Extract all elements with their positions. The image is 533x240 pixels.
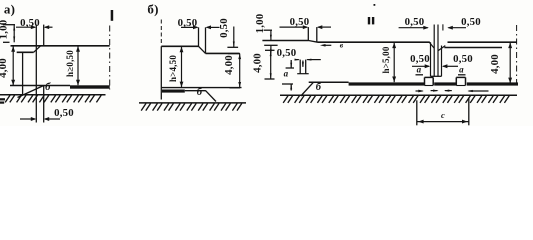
svg-text:0,50: 0,50: [54, 107, 74, 119]
svg-text:а): а): [4, 2, 15, 17]
fig a axis dash-dot line: [109, 26, 111, 90]
svg-text:0,50: 0,50: [277, 47, 297, 59]
fig b tick bottom ext: [230, 87, 241, 89]
fig v trench wall right outer: [441, 46, 443, 77]
fig a axis label I: [111, 10, 114, 21]
svg-text:4,00: 4,00: [223, 55, 235, 75]
fig a h dimension line with arrows: [77, 46, 79, 85]
fig v embankment slope left: [301, 82, 314, 96]
svg-text:с: с: [441, 110, 445, 120]
fig a pavement top line: [11, 45, 110, 47]
fig a 1,00 dimension ticks and line: [3, 24, 15, 26]
fig v trench chamfer right: [438, 46, 445, 51]
fig a extension line left x36: [35, 25, 37, 123]
fig v h>5,00 dimension line with arrows: [393, 43, 395, 83]
fig b bottom line after bar: [185, 90, 206, 92]
fig a extension line right x44 lower: [43, 86, 45, 123]
svg-text:а: а: [459, 64, 464, 74]
fig v extension x308: [307, 27, 309, 40]
svg-text:1,00: 1,00: [0, 20, 9, 40]
fig v 1,00 dimension line: [270, 30, 272, 40]
fig b ground hatching: [141, 103, 146, 110]
fig v box 1 left wall: [424, 77, 426, 85]
fig v pavement right of trench: [448, 41, 517, 43]
fig v arrow left of box1 under bar: [416, 90, 423, 92]
fig v trench bottom: [431, 75, 442, 77]
fig v meeting arrows under bar: [431, 90, 438, 92]
fig v gap dim ticks and arrows with label a: [286, 67, 294, 69]
fig v 4,00 right dimension line: [509, 43, 511, 84]
fig a berm top line: [17, 51, 34, 53]
fig a extension line right x44 upper: [43, 25, 45, 46]
fig v trench wall right inner full ext: [437, 25, 439, 77]
svg-text:4,00: 4,00: [489, 54, 501, 74]
fig b h>4,50 dimension line with arrows: [181, 47, 183, 87]
fig a ground line: [0, 94, 106, 96]
svg-text:0,50: 0,50: [405, 16, 425, 28]
fig v ground hatching: [283, 96, 288, 103]
fig b tick pavement level ext: [228, 53, 240, 55]
fig b extension line x198: [198, 27, 200, 46]
svg-text:а: а: [417, 64, 422, 74]
fig v label II: [368, 17, 370, 24]
fig v tick below left: [264, 44, 277, 46]
fig v top dimension line with arrows: [280, 26, 308, 28]
fig v tick top left: [264, 29, 272, 31]
fig v thick bar segment 1: [349, 82, 425, 85]
fig v box 1 bottom thin line: [425, 85, 434, 87]
fig v box 1 right wall: [432, 77, 434, 85]
fig v box 2 bottom thin line: [456, 85, 465, 87]
fig v axis dash-dot line: [516, 25, 518, 86]
fig v thick bar segment 2: [434, 82, 456, 85]
svg-text:б: б: [197, 87, 203, 98]
fig b ground line: [139, 102, 246, 104]
fig v box 1 top: [425, 76, 434, 78]
fig b step slope: [199, 46, 206, 53]
fig b left dash-dot edge above: [160, 20, 162, 46]
fig a thick pavement bar: [70, 85, 110, 88]
fig v 4,00 left ticks and line: [265, 49, 275, 51]
fig v dimension c extension right: [468, 98, 470, 126]
fig v right arrow under bar: [469, 90, 489, 92]
svg-text:в: в: [340, 41, 344, 50]
svg-text:h≥0,50: h≥0,50: [65, 50, 75, 77]
fig v ditch small arrow: [302, 61, 304, 67]
svg-text:0,50: 0,50: [290, 16, 310, 28]
fig v label v with leader arrow: [325, 44, 331, 46]
fig a top dimension line 0,50 with arrows: [16, 26, 35, 28]
svg-text:а: а: [284, 69, 289, 79]
fig v small ditch 0,50 dim line: [295, 59, 299, 61]
svg-text:0,50: 0,50: [453, 53, 473, 65]
fig v extension x317: [316, 27, 318, 42]
fig b top dimension line 0,50 with arrows: [181, 26, 197, 28]
fig b right dimension vertical line with arrows: [233, 27, 235, 48]
fig a kerb slope: [34, 46, 41, 53]
fig v lower line right of trench: [444, 47, 502, 49]
svg-text:б): б): [147, 2, 158, 17]
fig v trench top dim lines: [399, 27, 428, 29]
fig b tick upper level ext: [227, 46, 238, 48]
fig v thick bar segment 3: [467, 82, 518, 85]
svg-text:h>5,00: h>5,00: [381, 46, 391, 73]
speck: [374, 4, 376, 6]
fig a ground hatching: [5, 95, 10, 102]
svg-text:0,50: 0,50: [461, 16, 481, 28]
fig a bottom line thin: [10, 85, 70, 87]
fig v berm top line: [262, 40, 308, 42]
fig a scan ink blot bottom left: [0, 98, 5, 100]
fig v trench lower dim lines: [412, 65, 429, 67]
fig v ditch vertical right: [305, 60, 307, 74]
fig b extension line x205: [205, 27, 207, 53]
fig v pavement line left of trench: [318, 41, 430, 43]
fig v trench wall left inner full ext: [433, 25, 435, 77]
fig v 0,50 left dim lower arrow: [270, 45, 272, 53]
svg-text:б: б: [316, 82, 322, 93]
fig v ground line: [280, 94, 517, 96]
fig v dimension c line with arrows: [417, 121, 469, 123]
fig b pavement line: [206, 52, 240, 54]
fig v box 2 top: [456, 76, 465, 78]
svg-text:h>4,50: h>4,50: [168, 55, 178, 82]
fig b left edge vertical: [160, 46, 162, 99]
fig v dimension c extension left: [416, 100, 418, 125]
svg-text:4,00: 4,00: [251, 53, 263, 73]
fig v box 2 left wall: [455, 77, 457, 85]
fig v berm-to-pavement slope: [309, 41, 318, 43]
fig v bottom line thin: [309, 81, 349, 83]
fig b berm top line: [161, 45, 198, 47]
fig b embankment slope: [205, 90, 216, 101]
fig a left edge vertical: [22, 52, 24, 95]
fig v ditch vertical left: [299, 60, 301, 74]
fig v trench chamfer left: [429, 42, 434, 48]
fig v box 2 right wall: [465, 77, 467, 85]
svg-text:4,00: 4,00: [0, 58, 9, 78]
fig b 4,00 dimension line: [239, 54, 241, 88]
svg-text:0,50: 0,50: [410, 53, 430, 65]
fig a 4,00 dimension line with arrows: [12, 46, 14, 85]
fig b bottom line thin: [161, 87, 241, 89]
fig v ditch ledge: [297, 73, 309, 75]
fig v trench wall left outer: [430, 42, 432, 76]
fig a embankment slope: [18, 86, 44, 98]
fig b thick pavement bar: [162, 90, 185, 93]
svg-text:0,50: 0,50: [218, 18, 230, 38]
svg-text:б: б: [45, 82, 51, 93]
